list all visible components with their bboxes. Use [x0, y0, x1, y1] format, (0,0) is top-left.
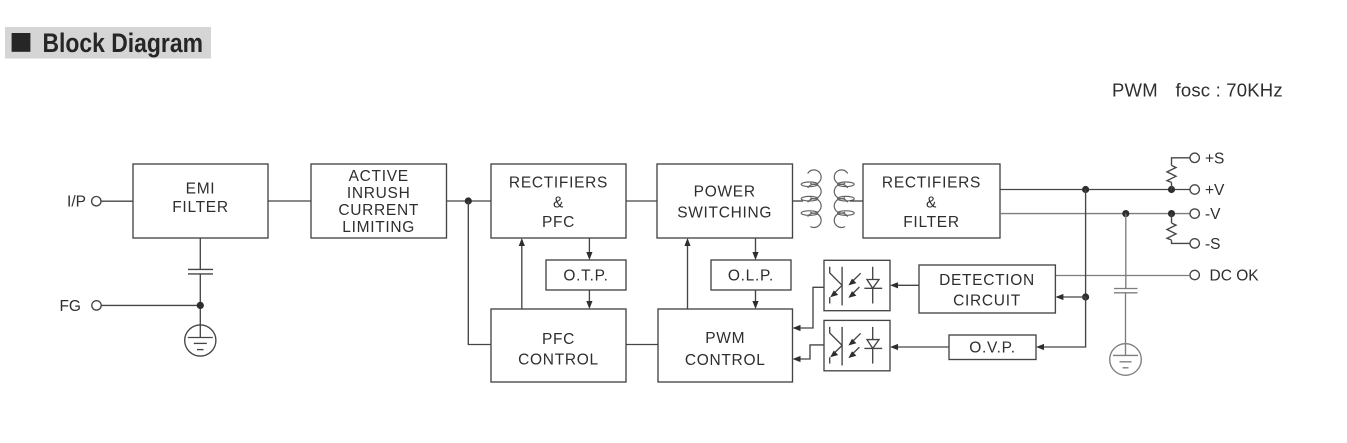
ground symbol (output side) — [1110, 344, 1142, 376]
wire +V output bus — [1000, 189, 1190, 191]
svg-text:&: & — [926, 194, 937, 211]
wire detection node into DETECTION CIRCUIT — [1062, 296, 1086, 298]
terminal -S — [1190, 236, 1221, 253]
block RECTIFIERS & FILTER — [863, 164, 1000, 238]
wire ACTIVE INRUSH to RECTIFIERS & PFC — [447, 200, 492, 202]
opto-coupler U1 — [824, 260, 890, 310]
arrowhead opto U1 into PWM CONTROL — [793, 325, 801, 331]
svg-text:PWM: PWM — [705, 330, 745, 347]
wire FG to ground node — [101, 304, 200, 306]
node FG junction — [197, 302, 204, 309]
resistor R+S — [1167, 165, 1176, 182]
svg-text:SWITCHING: SWITCHING — [677, 204, 772, 221]
wire -V node down to capacitor C1 — [1125, 214, 1127, 289]
svg-text:POWER: POWER — [694, 184, 756, 201]
arrowhead into opto U1 — [890, 282, 898, 288]
svg-text:EMI: EMI — [186, 181, 216, 198]
block PWM CONTROL — [658, 309, 793, 382]
terminal FG — [59, 298, 101, 315]
svg-text:RECTIFIERS: RECTIFIERS — [509, 175, 608, 192]
svg-text:PFC: PFC — [542, 214, 575, 231]
capacitor C2 — [188, 269, 213, 274]
arrowhead into RECTIFIERS & PFC — [519, 238, 525, 246]
svg-text:CURRENT: CURRENT — [338, 202, 419, 219]
wire EMI FILTER down to capacitor C2 — [199, 238, 201, 269]
wire O.V.P. to opto U2 — [897, 346, 949, 348]
arrowhead into DETECTION CIRCUIT — [1055, 294, 1063, 300]
wire O.T.P. down to PFC CONTROL — [588, 290, 590, 302]
wire capacitor C1 to ground — [1125, 293, 1127, 356]
block O.L.P. — [711, 260, 791, 290]
svg-text:CONTROL: CONTROL — [685, 352, 766, 369]
wire node A down to PFC CONTROL — [468, 201, 491, 345]
svg-text:fosc : 70KHz: fosc : 70KHz — [1176, 80, 1283, 101]
arrowhead into POWER SWITCHING — [684, 238, 690, 246]
arrowhead opto U2 into PWM CONTROL — [793, 356, 801, 362]
wire DETECTION CIRCUIT to opto U1 — [897, 284, 919, 286]
node junction A (bus to PFC CONTROL) — [465, 197, 472, 204]
svg-text:ACTIVE: ACTIVE — [349, 168, 409, 185]
transformer T1 secondary winding — [834, 170, 854, 228]
svg-text:CONTROL: CONTROL — [518, 352, 599, 369]
wire O.L.P. down to PWM CONTROL — [755, 290, 757, 302]
svg-text:DETECTION: DETECTION — [939, 272, 1035, 289]
svg-text:RECTIFIERS: RECTIFIERS — [882, 174, 981, 191]
terminal DC OK — [1190, 267, 1259, 284]
wire +V bus down to detection node — [1085, 190, 1087, 298]
svg-text:-S: -S — [1205, 236, 1221, 253]
terminal +S — [1190, 150, 1224, 167]
capacitor C1 — [1114, 289, 1138, 293]
svg-text:&: & — [553, 194, 564, 211]
wire PWM CONTROL up to POWER SWITCHING — [687, 245, 689, 309]
wire I/P to EMI FILTER — [101, 200, 133, 202]
wire POWER SWITCHING down to O.L.P. — [755, 238, 757, 253]
transformer T1 primary winding — [801, 170, 821, 228]
svg-text:O.L.P.: O.L.P. — [728, 268, 774, 285]
wire capacitor C2 through FG node to ground — [199, 274, 201, 338]
wire -S branch — [1172, 214, 1191, 244]
svg-text:DC OK: DC OK — [1210, 267, 1260, 284]
wire POWER SWITCHING to transformer primary — [793, 200, 804, 202]
arrowhead into PFC CONTROL — [586, 301, 592, 309]
svg-text:FILTER: FILTER — [903, 214, 959, 231]
resistor R-S — [1167, 223, 1176, 240]
svg-text:LIMITING: LIMITING — [342, 219, 415, 236]
block ACTIVE INRUSH CURRENT LIMITING — [311, 164, 447, 238]
wire RECTIFIERS & PFC to POWER SWITCHING — [626, 200, 657, 202]
svg-text:O.T.P.: O.T.P. — [563, 268, 608, 285]
node junction on +V bus (to detection) — [1082, 186, 1089, 193]
block POWER SWITCHING — [657, 164, 793, 238]
wire PFC CONTROL to PWM CONTROL — [626, 344, 658, 346]
svg-text:O.V.P.: O.V.P. — [969, 340, 1015, 357]
svg-text:INRUSH: INRUSH — [347, 185, 411, 202]
svg-text:-V: -V — [1205, 206, 1221, 223]
wire PFC CONTROL up to RECTIFIERS & PFC — [521, 245, 523, 309]
arrowhead into PWM CONTROL — [752, 301, 758, 309]
arrowhead into opto U2 — [890, 344, 898, 350]
node junction on -V bus (to -S resistor) — [1168, 210, 1175, 217]
block O.T.P. — [546, 260, 626, 290]
wire transformer secondary to RECTIFIERS & FILTER — [850, 200, 863, 202]
node junction on -V bus (to capacitor) — [1122, 210, 1129, 217]
node junction on +V bus (to +S resistor) — [1168, 186, 1175, 193]
opto-coupler U2 — [824, 320, 890, 370]
wire -V output bus — [1000, 213, 1190, 215]
svg-text:FG: FG — [59, 298, 81, 315]
svg-text:+S: +S — [1205, 150, 1224, 167]
svg-text:PWM: PWM — [1112, 80, 1158, 101]
wire DETECTION CIRCUIT to DC OK — [1055, 275, 1190, 277]
svg-text:Block Diagram: Block Diagram — [43, 30, 203, 59]
svg-text:PFC: PFC — [542, 331, 575, 348]
wire opto U1 to PWM CONTROL — [800, 287, 824, 328]
node junction detection feed — [1082, 293, 1089, 300]
arrowhead into O.L.P. — [752, 252, 758, 260]
svg-text:I/P: I/P — [67, 194, 86, 211]
wire detection node down to O.V.P. — [1043, 297, 1086, 347]
terminal -V — [1190, 206, 1221, 223]
svg-text:+V: +V — [1205, 182, 1225, 199]
ground symbol (input side) — [185, 325, 216, 356]
note PWM fosc : 70KHz — [1112, 80, 1283, 101]
wire EMI to ACTIVE INRUSH — [268, 200, 311, 202]
block O.V.P. — [949, 335, 1036, 360]
svg-text:FILTER: FILTER — [172, 199, 228, 216]
wire opto U2 to PWM CONTROL — [800, 345, 824, 359]
terminal I/P — [67, 194, 101, 211]
block EMI FILTER — [133, 164, 268, 238]
block PFC CONTROL — [491, 309, 626, 382]
arrowhead into O.V.P. — [1036, 344, 1044, 350]
block DETECTION CIRCUIT — [919, 265, 1055, 313]
arrowhead into O.T.P. — [586, 252, 592, 260]
wire +S branch — [1172, 158, 1191, 190]
terminal +V — [1190, 182, 1225, 199]
title Block Diagram — [5, 27, 211, 59]
block RECTIFIERS & PFC — [491, 164, 626, 238]
svg-text:CIRCUIT: CIRCUIT — [953, 292, 1021, 309]
wire RECTIFIERS & PFC down to O.T.P. — [588, 238, 590, 253]
